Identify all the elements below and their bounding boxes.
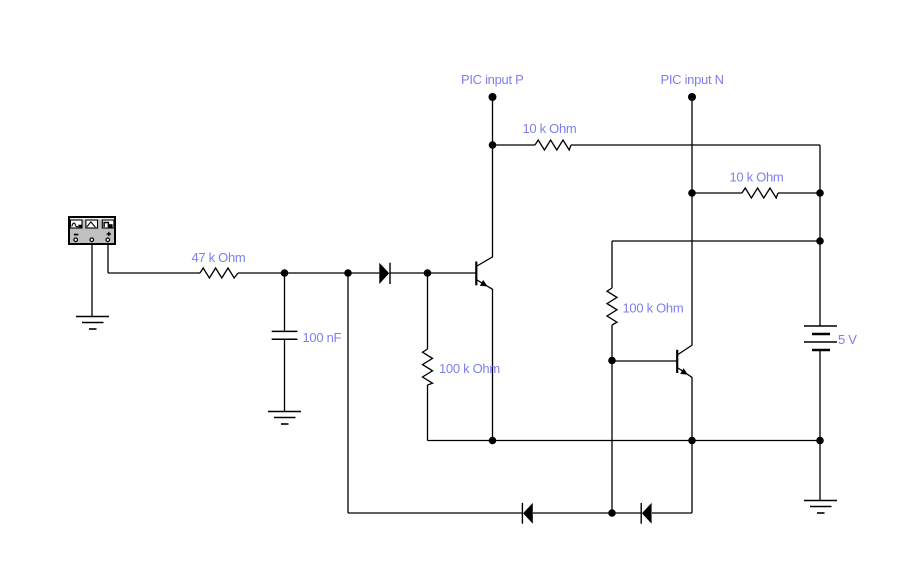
- svg-text:47 k Ohm: 47 k Ohm: [192, 250, 246, 265]
- wire Q2 emitter down: [691, 378, 693, 441]
- capacitor C1 100 nF plates: [272, 331, 298, 339]
- wire corner up to emitter node: [691, 441, 693, 514]
- wire node N to 10k resistor R2: [692, 192, 742, 194]
- wire cap top lead: [284, 273, 286, 331]
- wire Q2 base: [612, 360, 677, 362]
- diode D1: [379, 263, 390, 284]
- wire diode D1 to node B: [391, 272, 428, 274]
- wire bottom diode rail left segment: [348, 512, 522, 514]
- diode D2: [522, 503, 532, 524]
- resistor 10 k Ohm R1 zigzag: [535, 140, 571, 150]
- svg-text:100 k Ohm: 100 k Ohm: [623, 301, 684, 316]
- resistor 100 k Ohm R3 zigzag vertical: [423, 349, 433, 385]
- wire battery bottom to ground: [819, 351, 821, 501]
- wire right rail down to battery: [819, 145, 821, 326]
- svg-text:5 V: 5 V: [838, 332, 857, 347]
- wire R4 bottom down to bottom diode rail: [611, 325, 613, 513]
- wire node C horizontal y=241: [612, 240, 820, 242]
- battery V1 5 V plates: [804, 326, 837, 350]
- wire Q1 collector node to PIC input P terminal: [492, 97, 494, 145]
- wire collector node to 10k resistor R1: [493, 144, 536, 146]
- wire FG to 47k resistor: [108, 272, 200, 274]
- resistor 47 k Ohm R5 zigzag: [200, 268, 238, 278]
- wire 47k resistor to cap node: [238, 272, 348, 274]
- function generator XFG1: [69, 217, 115, 244]
- wire R2 to right rail: [778, 192, 820, 194]
- wire node B to 100k resistor R3: [427, 273, 429, 349]
- svg-text:10 k Ohm: 10 k Ohm: [730, 169, 784, 184]
- svg-text:10 k Ohm: 10 k Ohm: [523, 121, 577, 136]
- wire FG minus terminal to ground: [91, 241, 93, 316]
- terminal PIC input N: [688, 93, 696, 101]
- wire diode D2 to node D: [533, 512, 641, 514]
- wire R3 bottom lead: [427, 385, 429, 441]
- wire node A to diode D1: [348, 272, 379, 274]
- wire diode D3 to corner: [652, 512, 692, 514]
- transistor Q2: [677, 345, 692, 378]
- junction dots: [281, 269, 289, 277]
- diode D3: [641, 503, 651, 524]
- svg-text:PIC input P: PIC input P: [461, 72, 523, 87]
- wire bottom horizontal rail y=440: [428, 440, 821, 442]
- wire Q1 collector up: [492, 145, 494, 257]
- wire node A down to bottom rail: [347, 273, 349, 513]
- wire node B to Q1 base: [428, 272, 476, 274]
- ground at battery: [804, 501, 837, 514]
- svg-text:100 nF: 100 nF: [303, 330, 342, 345]
- wire cap bottom lead to ground: [284, 340, 286, 412]
- ground at function generator: [76, 317, 109, 330]
- ground at capacitor: [268, 412, 301, 425]
- terminal PIC input P: [489, 93, 497, 101]
- resistor 10 k Ohm R2 zigzag: [742, 188, 778, 198]
- wire node C down to 100k resistor R4: [611, 241, 613, 288]
- wire Q1 emitter down: [492, 289, 494, 441]
- wire FG plus terminal down: [107, 241, 109, 273]
- wire R1 to right rail: [571, 144, 820, 146]
- svg-text:100 k Ohm: 100 k Ohm: [439, 361, 500, 376]
- wire PIC input N terminal down to Q2 collector: [691, 97, 693, 345]
- resistor 100 k Ohm R4 zigzag vertical: [607, 288, 617, 325]
- transistor Q1: [476, 257, 493, 290]
- svg-text:PIC input N: PIC input N: [661, 72, 724, 87]
